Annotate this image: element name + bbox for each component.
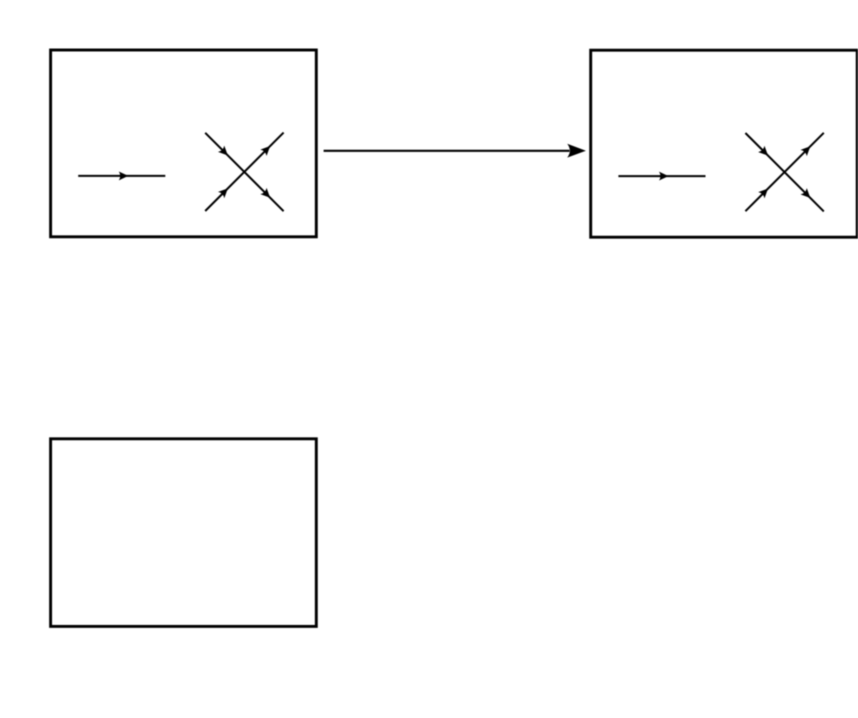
- box 1: top-left rectangle: [51, 50, 317, 237]
- wire: long arrow from box 1 to box 2: [324, 144, 586, 158]
- scattering diagram inside box 2: [618, 133, 823, 212]
- box 2: top-right rectangle: [591, 50, 858, 237]
- scattering diagram inside box 1: [78, 133, 283, 212]
- box 3: bottom-left empty rectangle: [51, 439, 317, 627]
- arrowhead of long arrow: [567, 144, 586, 158]
